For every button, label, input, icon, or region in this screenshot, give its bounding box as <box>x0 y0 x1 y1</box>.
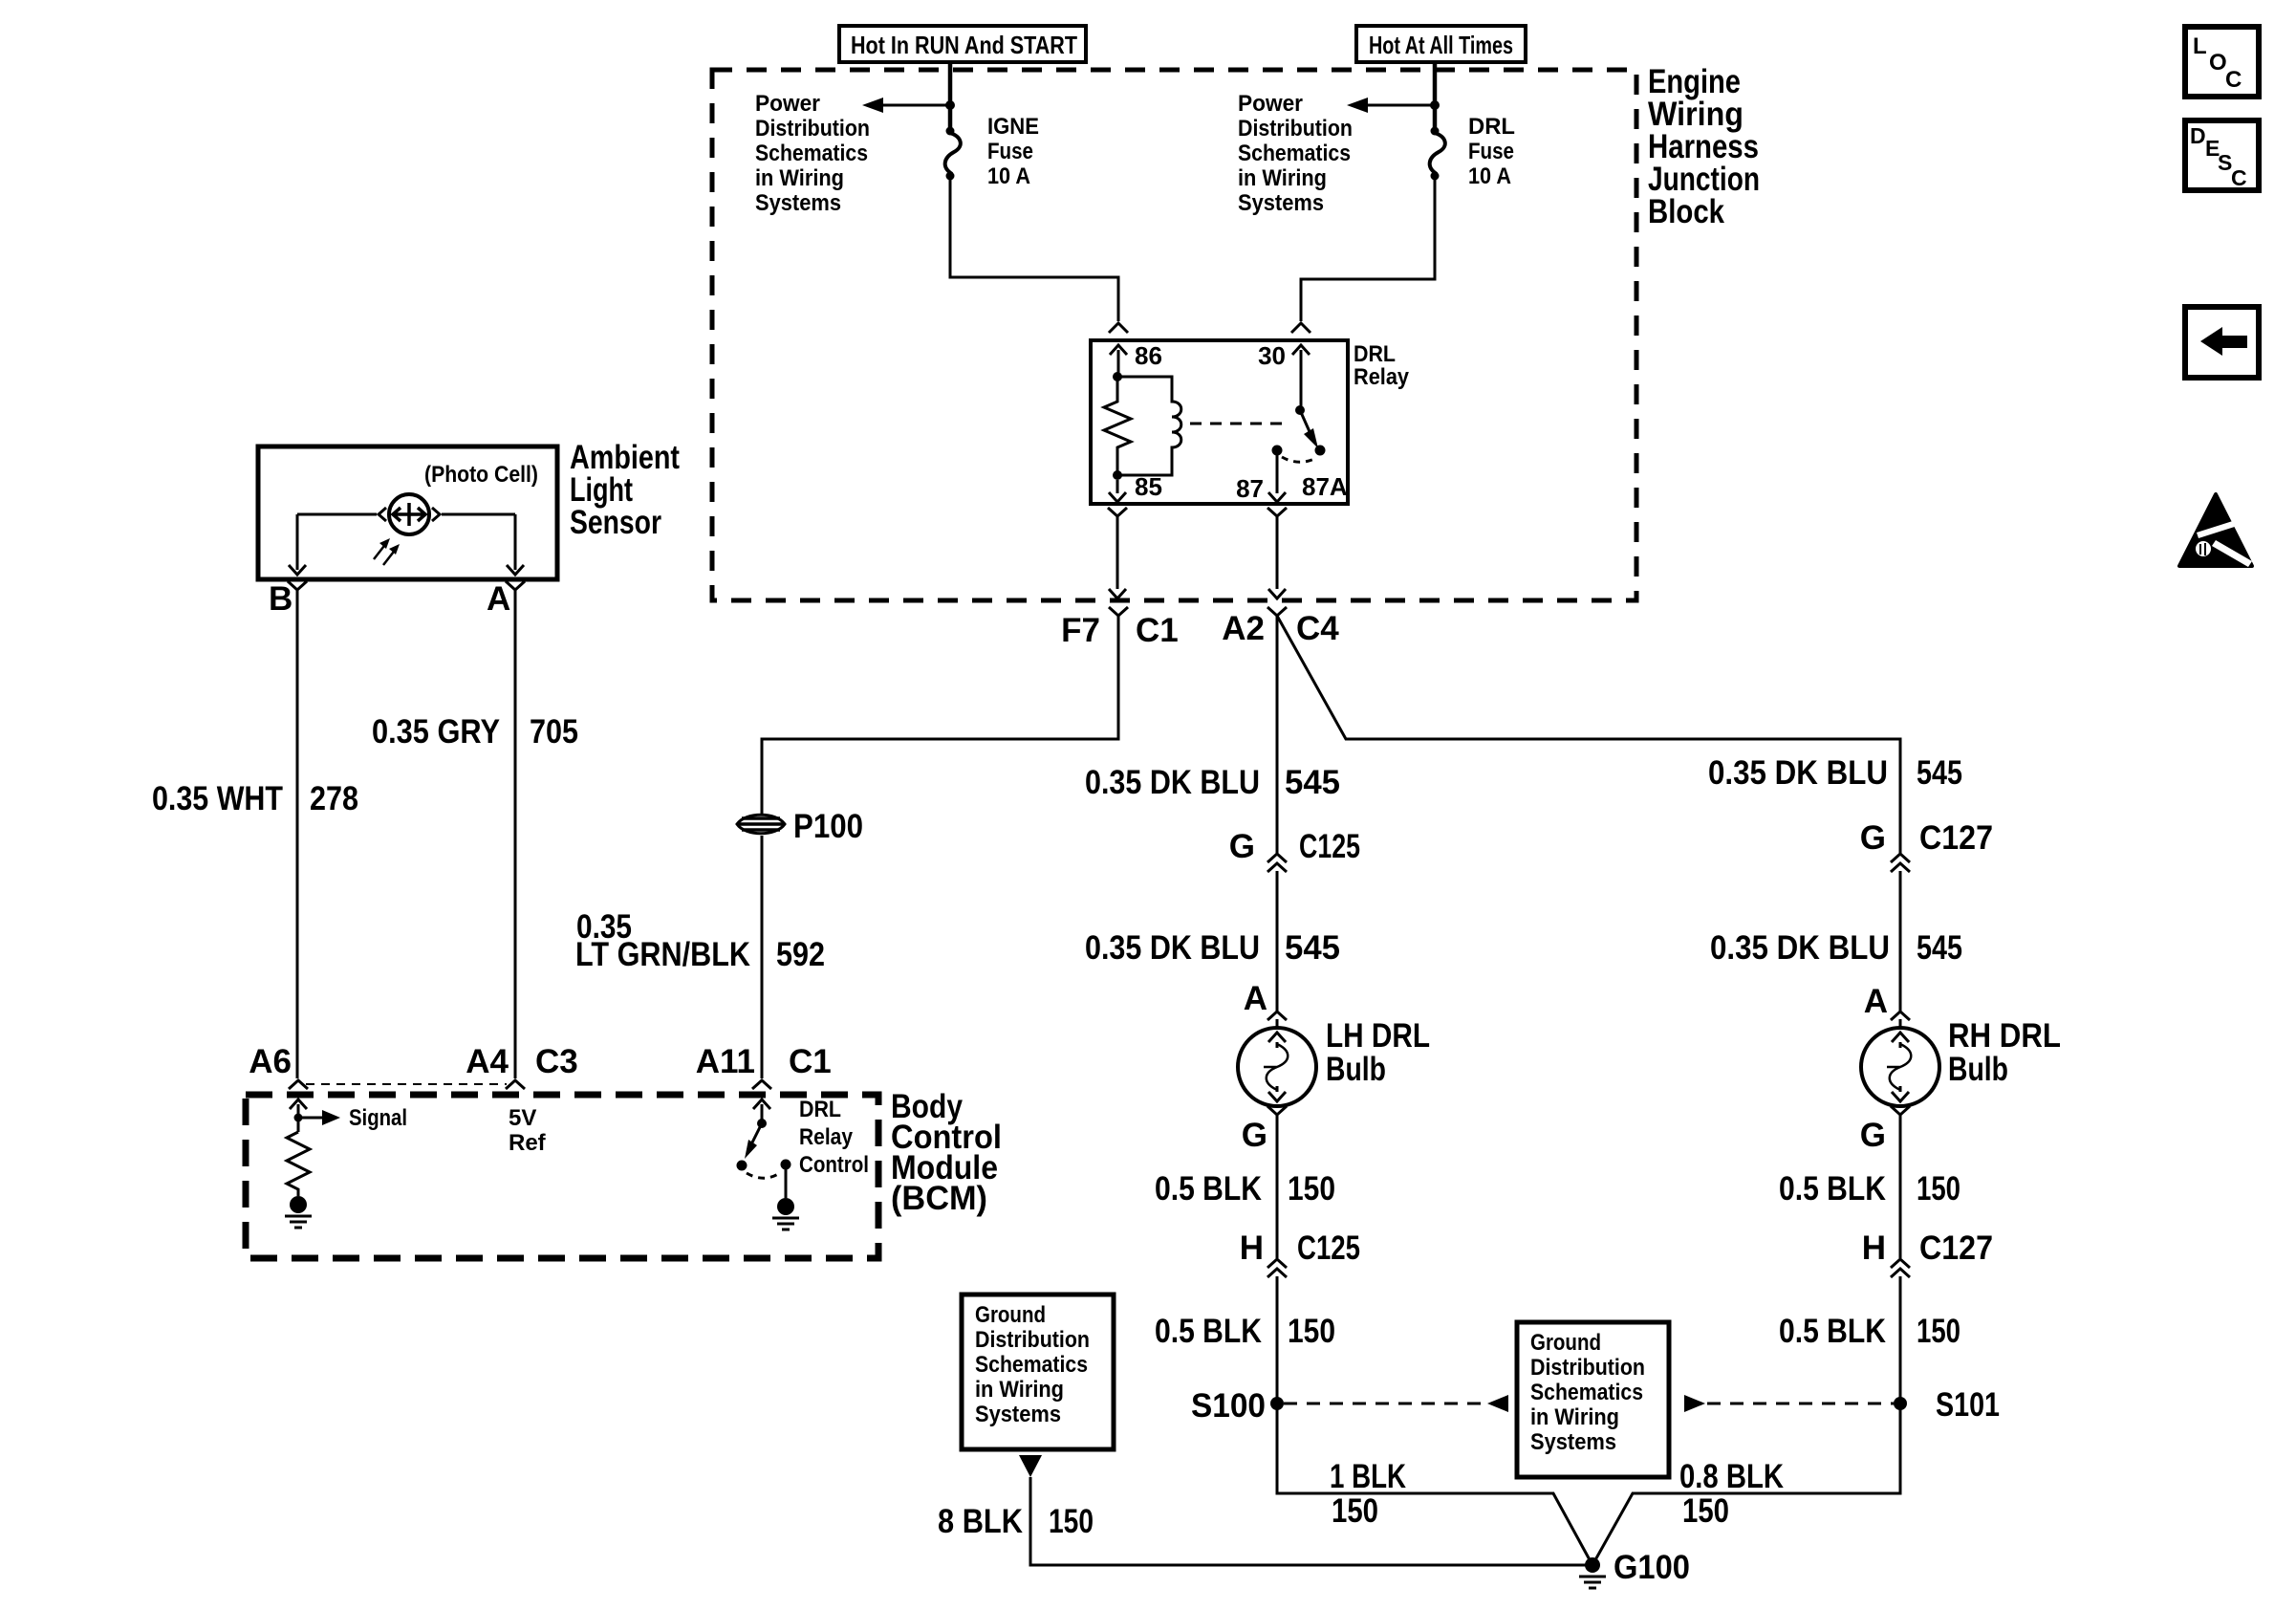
svg-text:Fuse: Fuse <box>1468 139 1514 164</box>
connector chevron pin B <box>288 581 307 590</box>
svg-text:P100: P100 <box>793 808 863 845</box>
lamp RH DRL Bulb <box>1861 1028 1939 1106</box>
node splice S100 <box>1270 1397 1284 1410</box>
resistor BCM sensor pull-up <box>287 1132 310 1196</box>
svg-text:A11: A11 <box>696 1043 755 1080</box>
svg-text:G: G <box>1229 828 1255 865</box>
wire A2 C4 to RH branch diagonal <box>1277 616 1900 854</box>
svg-text:0.5 BLK: 0.5 BLK <box>1779 1170 1886 1207</box>
svg-text:RH DRL: RH DRL <box>1948 1017 2061 1055</box>
svg-text:85: 85 <box>1135 472 1162 501</box>
svg-text:87: 87 <box>1236 474 1264 503</box>
wire 0.35 GRY 705 circuit A to BCM A4 <box>514 590 517 1078</box>
svg-text:10 A: 10 A <box>987 163 1030 189</box>
relay pin 85 lead and arrow <box>1109 480 1126 502</box>
icon DESC box <box>2185 120 2259 190</box>
wire 8 BLK 150 to G100 <box>1030 1477 1586 1565</box>
wire to power distribution arrow (left) <box>866 104 950 107</box>
svg-text:545: 545 <box>1917 929 1962 967</box>
svg-text:0.35 DK BLU: 0.35 DK BLU <box>1085 764 1260 801</box>
svg-text:592: 592 <box>776 936 825 973</box>
node splice S101 <box>1894 1397 1907 1410</box>
connector caret BCM A11 <box>752 1080 771 1089</box>
svg-text:Systems: Systems <box>975 1402 1061 1427</box>
connector chevron RH bulb pin G <box>1891 1106 1910 1115</box>
wire photocell to pin B <box>289 514 377 575</box>
svg-text:C1: C1 <box>789 1043 832 1080</box>
wire relay pin 85 to junction block edge <box>1109 516 1126 598</box>
svg-text:705: 705 <box>530 713 578 751</box>
component Ambient Light Sensor box <box>258 446 557 579</box>
icon back arrow box <box>2185 307 2259 378</box>
svg-text:150: 150 <box>1288 1170 1335 1207</box>
node relay switch pivot <box>1295 405 1305 415</box>
callout box Ground Distribution (left) <box>962 1295 1114 1449</box>
svg-text:G: G <box>1860 819 1886 857</box>
fuse DRL Fuse 10 A <box>1430 127 1445 181</box>
svg-text:Bulb: Bulb <box>1948 1051 2008 1088</box>
fuse IGNE Fuse 10 A <box>945 127 961 181</box>
relay pin 30 arrow and lead <box>1292 345 1310 410</box>
svg-text:LT GRN/BLK: LT GRN/BLK <box>575 936 750 973</box>
svg-text:S100: S100 <box>1191 1387 1266 1425</box>
svg-text:86: 86 <box>1135 341 1162 370</box>
pass-through grommet P100 <box>737 815 785 834</box>
svg-text:Control: Control <box>799 1152 869 1178</box>
connector caret LH bulb pin A <box>1267 1012 1287 1020</box>
wire from Hot At All Times to DRL fuse <box>1433 62 1438 131</box>
text layer top <box>755 31 1760 649</box>
wire from Hot In RUN And START to IGNE fuse <box>948 62 953 131</box>
svg-text:Hot At All Times: Hot At All Times <box>1369 31 1513 59</box>
svg-text:Distribution: Distribution <box>975 1327 1090 1353</box>
wire 0.5 BLK 150 C127 to S101 <box>1899 1276 1902 1403</box>
svg-text:in Wiring: in Wiring <box>1238 165 1327 191</box>
svg-text:C127: C127 <box>1919 1229 1993 1267</box>
svg-text:Sensor: Sensor <box>570 504 661 541</box>
wire BCM switch to ground <box>785 1164 788 1198</box>
svg-text:B: B <box>269 580 292 618</box>
connector caret above relay pin 86 <box>1109 323 1128 333</box>
svg-text:30: 30 <box>1258 341 1286 370</box>
svg-text:DRL: DRL <box>1468 114 1515 140</box>
arrow down from left ground box <box>1019 1455 1042 1477</box>
relay switch arm <box>1300 410 1318 448</box>
svg-text:Relay: Relay <box>799 1124 854 1150</box>
svg-text:A4: A4 <box>466 1043 509 1080</box>
node BCM signal junction <box>294 1114 303 1122</box>
relay alternate position dashed arc <box>1282 457 1316 462</box>
connector break G C127 <box>1891 854 1910 872</box>
wire to power distribution arrow (right) <box>1351 104 1435 107</box>
svg-text:0.8 BLK: 0.8 BLK <box>1679 1458 1784 1495</box>
wire 0.35 WHT 278 circuit B to BCM A6 <box>296 590 299 1078</box>
svg-text:DRL: DRL <box>1354 341 1396 367</box>
svg-text:0.35 DK BLU: 0.35 DK BLU <box>1710 929 1890 967</box>
dashed link S100 to ground schematics <box>1284 1403 1484 1405</box>
BCM switch alternate position dashed arc <box>747 1172 781 1178</box>
svg-text:Power: Power <box>1238 91 1303 117</box>
node DRL feed junction <box>1430 100 1440 110</box>
wire fuse IGNE to relay pin 86 <box>950 176 1118 321</box>
node BCM switch pivot <box>757 1119 767 1128</box>
svg-text:C4: C4 <box>1296 610 1339 647</box>
ground BCM A6 internal <box>285 1196 312 1228</box>
svg-text:1 BLK: 1 BLK <box>1330 1458 1406 1495</box>
wire 0.35 DK BLU 545 C125 to LH bulb <box>1276 871 1279 1028</box>
Engine Wiring Harness Junction Block dashed boundary <box>712 70 1636 600</box>
svg-text:L: L <box>2193 33 2207 59</box>
node relay contact 87A <box>1315 446 1326 456</box>
svg-text:545: 545 <box>1285 764 1340 801</box>
svg-text:(BCM): (BCM) <box>891 1180 987 1217</box>
svg-text:D: D <box>2190 123 2206 148</box>
svg-text:Systems: Systems <box>755 190 841 216</box>
svg-text:C3: C3 <box>535 1043 578 1080</box>
svg-text:545: 545 <box>1285 929 1340 967</box>
svg-text:H: H <box>1240 1229 1264 1267</box>
callout box Ground Distribution (right) <box>1517 1322 1669 1477</box>
connector caret RH bulb pin A <box>1891 1012 1910 1020</box>
icon LOC box <box>2185 27 2259 97</box>
svg-text:Schematics: Schematics <box>1530 1380 1643 1405</box>
svg-text:Schematics: Schematics <box>755 141 868 166</box>
svg-text:Block: Block <box>1648 193 1724 230</box>
svg-text:A2: A2 <box>1222 610 1265 647</box>
svg-text:150: 150 <box>1332 1492 1378 1530</box>
svg-text:Relay: Relay <box>1354 364 1410 390</box>
svg-text:545: 545 <box>1917 754 1962 792</box>
wire F7 C1 to P100 <box>762 616 1118 814</box>
svg-text:Schematics: Schematics <box>1238 141 1351 166</box>
wire 0.35 DK BLU 545 LH down to C125 <box>1276 616 1279 854</box>
svg-text:H: H <box>1862 1229 1886 1267</box>
connector break G C125 <box>1267 854 1287 872</box>
svg-text:C127: C127 <box>1919 819 1993 857</box>
wire photocell to pin A <box>442 514 524 575</box>
ground BCM A11 internal <box>772 1198 799 1229</box>
svg-text:Systems: Systems <box>1530 1429 1616 1455</box>
connector caret above relay pin 30 <box>1291 323 1310 333</box>
connector chevron below F7 C1 <box>1109 607 1128 616</box>
svg-text:A: A <box>487 580 510 618</box>
svg-text:C: C <box>2225 67 2242 93</box>
wire 0.35 DK BLU 545 C127 to RH bulb <box>1899 871 1902 1028</box>
component Body Control Module dashed box <box>246 1095 878 1258</box>
svg-text:Distribution: Distribution <box>1530 1355 1645 1381</box>
svg-text:0.5 BLK: 0.5 BLK <box>1779 1313 1886 1350</box>
relay pin 86 arrow <box>1110 345 1127 377</box>
svg-text:in Wiring: in Wiring <box>975 1377 1064 1403</box>
connector caret BCM A6 <box>289 1080 308 1089</box>
svg-text:in Wiring: in Wiring <box>755 165 844 191</box>
svg-text:Ground: Ground <box>975 1302 1046 1328</box>
icon ESD warning triangle <box>2179 494 2252 567</box>
svg-text:LH DRL: LH DRL <box>1326 1017 1430 1055</box>
inductor relay coil <box>1117 377 1181 475</box>
svg-text:Hot In RUN And START: Hot In RUN And START <box>851 31 1077 59</box>
relay pin 87 lead and arrow <box>1268 455 1286 502</box>
power feed box Hot At All Times <box>1356 26 1526 62</box>
svg-text:8 BLK: 8 BLK <box>938 1503 1023 1540</box>
wire 0.35 LT GRN/BLK 592 P100 to BCM A11 <box>761 836 764 1078</box>
svg-text:Schematics: Schematics <box>975 1352 1088 1378</box>
dashed connector line A6 to A4 <box>306 1083 507 1085</box>
node ground junction G100 <box>1585 1557 1600 1573</box>
svg-text:in Wiring: in Wiring <box>1530 1404 1619 1430</box>
svg-text:C: C <box>2231 165 2247 190</box>
lamp LH DRL Bulb <box>1238 1028 1316 1106</box>
BCM A6 input arrow <box>290 1099 307 1132</box>
node relay coil top junction <box>1113 372 1122 381</box>
connector chevron below A2 C4 <box>1267 607 1287 616</box>
arrow to Power Distribution Schematics <box>1347 98 1368 113</box>
connector chevron below relay pin 85 <box>1108 508 1127 516</box>
svg-text:150: 150 <box>1049 1503 1094 1540</box>
wire to Signal arrow <box>298 1110 340 1125</box>
svg-text:F7: F7 <box>1061 612 1100 649</box>
svg-text:C1: C1 <box>1136 612 1179 649</box>
wire 0.5 BLK 150 LH bulb to C125 <box>1276 1115 1279 1258</box>
photocell light arrows <box>374 538 400 565</box>
power feed box Hot In RUN And START <box>839 26 1086 62</box>
svg-text:150: 150 <box>1288 1313 1335 1350</box>
svg-text:150: 150 <box>1917 1170 1960 1207</box>
svg-text:0.35 GRY: 0.35 GRY <box>372 713 500 751</box>
svg-text:Fuse: Fuse <box>987 139 1033 164</box>
BCM A11 input arrow <box>753 1099 770 1123</box>
relay DRL Relay box <box>1091 340 1348 504</box>
connector break H C125 <box>1267 1259 1287 1277</box>
connector chevron LH bulb pin G <box>1267 1106 1287 1115</box>
dashed link to S101 <box>1707 1403 1894 1405</box>
svg-text:150: 150 <box>1682 1492 1729 1530</box>
connector chevron below relay pin 87 <box>1267 508 1287 516</box>
svg-text:10 A: 10 A <box>1468 163 1511 189</box>
connector break H C127 <box>1891 1259 1910 1277</box>
svg-text:150: 150 <box>1917 1313 1960 1350</box>
arrow to Power Distribution Schematics <box>862 98 883 113</box>
wire relay pin 87 to junction block edge <box>1268 516 1286 598</box>
svg-text:C125: C125 <box>1299 828 1360 865</box>
svg-text:Ground: Ground <box>1530 1330 1601 1356</box>
connector caret BCM A4 <box>506 1080 525 1089</box>
svg-text:G: G <box>1242 1117 1267 1154</box>
photocell circle <box>389 494 429 534</box>
arrow to left pointing at S100 run <box>1487 1395 1508 1412</box>
svg-text:A: A <box>1244 980 1267 1017</box>
svg-text:0.5 BLK: 0.5 BLK <box>1155 1313 1262 1350</box>
svg-text:0.35 DK BLU: 0.35 DK BLU <box>1708 754 1888 792</box>
node relay coil bottom junction <box>1113 470 1122 480</box>
svg-text:IGNE: IGNE <box>987 114 1039 140</box>
svg-text:A6: A6 <box>249 1043 292 1080</box>
svg-text:S101: S101 <box>1936 1386 2000 1424</box>
svg-text:Signal: Signal <box>349 1105 407 1131</box>
svg-text:G: G <box>1860 1117 1886 1154</box>
svg-text:0.5 BLK: 0.5 BLK <box>1155 1170 1262 1207</box>
svg-text:DRL: DRL <box>799 1097 841 1122</box>
svg-text:(Photo Cell): (Photo Cell) <box>424 462 538 488</box>
ground G100 <box>1579 1577 1606 1588</box>
node BCM switch contact right <box>781 1160 791 1170</box>
node BCM switch contact left <box>737 1161 747 1171</box>
svg-text:A: A <box>1864 983 1888 1020</box>
wire 0.5 BLK 150 RH bulb to C127 <box>1899 1115 1902 1258</box>
photocell lead chevrons <box>379 508 440 521</box>
svg-text:5V: 5V <box>509 1105 536 1131</box>
wire 0.5 BLK 150 C125 to S100 <box>1276 1276 1279 1403</box>
node relay contact 87 <box>1272 446 1283 456</box>
svg-text:Distribution: Distribution <box>1238 116 1353 141</box>
svg-text:G100: G100 <box>1614 1549 1690 1586</box>
svg-text:Distribution: Distribution <box>755 116 870 141</box>
resistor relay coil suppression resistor <box>1104 377 1131 475</box>
svg-text:O: O <box>2209 50 2227 76</box>
svg-text:0.35 WHT: 0.35 WHT <box>152 780 283 817</box>
svg-text:0.35 DK BLU: 0.35 DK BLU <box>1085 929 1260 967</box>
wire relay actuation dashed link <box>1190 423 1290 425</box>
connector chevron pin A <box>506 581 525 590</box>
wire 1 BLK 150 S100 to G100 <box>1277 1403 1592 1565</box>
svg-text:Power: Power <box>755 91 820 117</box>
wire 0.8 BLK 150 S101 to G100 <box>1592 1403 1900 1565</box>
photocell diode double arrow <box>393 503 425 526</box>
svg-text:C125: C125 <box>1297 1229 1360 1267</box>
svg-text:Systems: Systems <box>1238 190 1324 216</box>
svg-text:87A: 87A <box>1302 472 1348 501</box>
svg-text:278: 278 <box>310 780 358 817</box>
wire fuse DRL to relay pin 30 <box>1301 176 1435 321</box>
arrow to right from ground box <box>1684 1395 1705 1412</box>
svg-text:Bulb: Bulb <box>1326 1051 1386 1088</box>
BCM DRL relay control switch arm <box>745 1123 762 1159</box>
node IGNE feed junction <box>945 100 955 110</box>
svg-text:Ref: Ref <box>509 1130 547 1156</box>
